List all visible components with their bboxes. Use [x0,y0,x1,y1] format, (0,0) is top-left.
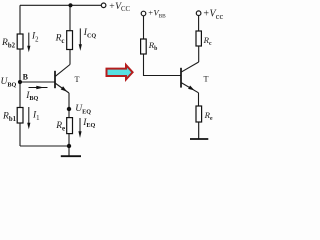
wire Rb to base [144,54,182,76]
wire collector rail left [69,5,71,64]
wire emitter to Re right [198,93,200,106]
wire top rail left circuit [20,4,101,6]
wire VBB to Rb [143,16,145,39]
ground right [190,122,208,139]
wire VCC to Rc right [198,16,200,32]
terminal +VCC left [101,3,106,8]
ground left [61,146,81,156]
transistor T2 right [181,62,199,93]
svg-text:B: B [23,73,29,82]
current arrow IEQ [78,118,81,138]
wire bottom rail left circuit [20,145,69,147]
wire emitter rail left [68,93,70,146]
resistor Rb1 [17,108,23,124]
current arrow ICQ [79,28,82,51]
transistor T1 left [55,65,70,94]
resistor Rb2 [17,34,23,49]
svg-text:T: T [204,75,209,84]
current arrow IBQ [29,86,48,90]
resistor Re left [67,118,73,134]
resistor Rb right [141,39,147,54]
resistor Rc left [67,31,73,50]
wire Rc to collector [198,46,200,62]
current arrow I2 [27,33,30,53]
node E [67,107,71,111]
svg-text:+Vcc: +Vcc [203,8,224,21]
resistor Re right [196,106,202,122]
node B [18,80,22,84]
node ground junction [67,144,71,148]
svg-text:T: T [75,75,80,84]
wire base left [20,81,55,83]
resistor Rc right [196,31,201,46]
wire left rail [19,5,21,146]
node junction top [68,3,72,7]
current arrow I1 [27,107,30,129]
terminal +VCC right [196,11,201,16]
terminal +VBB right [141,11,146,16]
block arrow between circuits [107,65,133,79]
